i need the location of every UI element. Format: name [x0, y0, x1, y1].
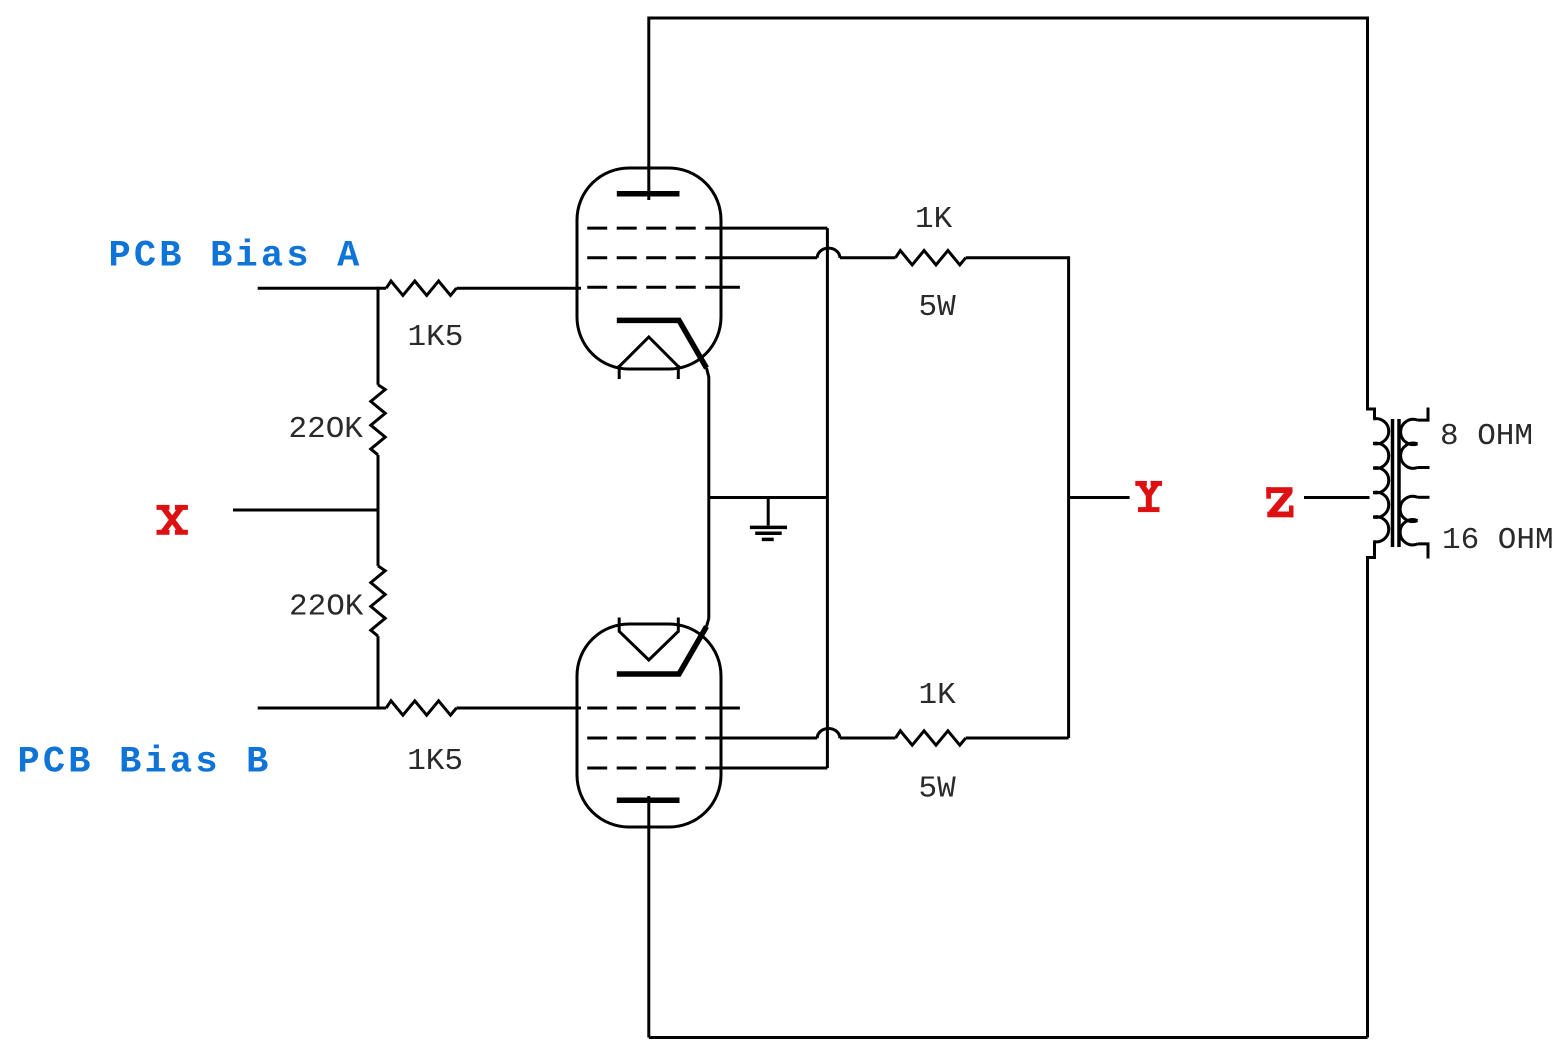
- wire Y tap: [1069, 496, 1130, 499]
- tube V2 plate: [617, 798, 680, 804]
- wire V1 g3 to suppressor rail: [712, 227, 827, 230]
- resistor R1 1K5 (top grid stopper): [386, 281, 456, 295]
- resistor R2 1K5 (bottom grid stopper): [386, 701, 456, 715]
- wire X input: [233, 509, 378, 512]
- wire bias A input: [258, 287, 387, 290]
- wire suppressor/cathode vertical rail: [826, 228, 829, 768]
- node Y label: [1135, 481, 1162, 512]
- tube V2 grid g1 (control) dashes: [587, 707, 712, 710]
- tube V1 grid g1 (control) dashes: [587, 286, 712, 289]
- wire V1 g2 (screen) to R5, hop over rail: [712, 256, 817, 259]
- svg-text:22OK: 22OK: [289, 412, 364, 447]
- wire R6 to Y node: [966, 737, 1069, 740]
- tube V2 envelope: [577, 624, 721, 827]
- wire hop to R5: [840, 256, 896, 259]
- svg-text:5W: 5W: [919, 290, 957, 325]
- svg-text:16 OHM: 16 OHM: [1442, 523, 1554, 558]
- svg-text:1K: 1K: [919, 678, 957, 713]
- wire bottom B+ rail: [649, 1036, 1368, 1039]
- tube V2 cathode: [617, 627, 707, 675]
- wire bias divider lower segment: [377, 636, 380, 709]
- wire top B+ rail: [649, 17, 1368, 20]
- svg-text:1K5: 1K5: [407, 744, 463, 779]
- tube V1 heater pin left: [618, 365, 621, 379]
- wire 8 ohm bottom terminal: [1418, 466, 1430, 469]
- tube V2 heater pin left: [618, 618, 621, 633]
- wire R2 to V2 control grid: [456, 707, 581, 710]
- wire V2 plate lead: [647, 796, 650, 1038]
- tube V1 grid g2 (screen) dashes: [587, 256, 712, 259]
- transformer T1 secondary winding 16 ohm: [1400, 496, 1417, 545]
- svg-text:22OK: 22OK: [289, 590, 364, 625]
- wire V2 g2 (screen) to R6, hop over rail: [712, 737, 817, 740]
- wire transformer primary top lead: [1368, 17, 1375, 420]
- tube V1 plate: [617, 191, 680, 197]
- wire transformer primary bottom lead: [1368, 542, 1375, 1038]
- transformer T1 primary winding: [1373, 419, 1389, 542]
- tube V2 heater: [619, 631, 678, 660]
- node X label: [157, 505, 188, 535]
- wire cathode join to ground: [709, 496, 828, 499]
- tube V1 heater: [619, 337, 678, 367]
- wire hop (bottom): [817, 728, 840, 738]
- wire 8 ohm top terminal: [1418, 408, 1429, 421]
- wire V1 cathode lead: [707, 368, 709, 619]
- wire R5 to Y node: [966, 256, 1069, 259]
- ground symbol: [750, 498, 787, 540]
- svg-text:PCB Bias A: PCB Bias A: [109, 236, 363, 278]
- wire 16 ohm top terminal: [1418, 496, 1430, 499]
- tube V2 grid g2 (screen) dashes: [587, 737, 712, 740]
- wire Y node vertical: [1067, 256, 1070, 738]
- tube V1 envelope: [577, 168, 721, 369]
- svg-text:8 OHM: 8 OHM: [1440, 419, 1533, 454]
- transformer T1 secondary winding 8 ohm: [1401, 419, 1418, 468]
- transformer T1 core: [1393, 419, 1400, 547]
- tube V2 grid g3 (suppressor) dashes: [587, 767, 712, 770]
- tube V1 cathode: [617, 320, 707, 368]
- wire hop (top): [817, 248, 840, 258]
- svg-text:PCB Bias B: PCB Bias B: [18, 741, 272, 783]
- wire bias divider middle segment: [377, 455, 380, 566]
- tube V2 heater pin right: [677, 618, 680, 633]
- wire V1 g1 stub right: [712, 286, 740, 289]
- wire V2 cathode lead: [707, 619, 709, 627]
- resistor R6 1K 5W (bottom): [896, 731, 966, 745]
- svg-text:5W: 5W: [919, 772, 957, 807]
- svg-text:1K5: 1K5: [408, 320, 464, 355]
- wire R1 to V1 control grid: [456, 287, 581, 290]
- tube V1 heater pin right: [677, 365, 680, 379]
- wire hop to R6: [840, 737, 896, 740]
- wire V2 g1 stub right: [712, 707, 740, 710]
- tube V1 grid g3 (suppressor) dashes: [587, 227, 712, 230]
- wire V2 g3 to suppressor rail: [712, 767, 827, 770]
- resistor R4 220K (lower): [371, 566, 385, 636]
- wire bias B input: [258, 707, 387, 710]
- wire V1 plate lead: [647, 17, 650, 201]
- node Z label: [1266, 487, 1293, 517]
- wire Z tap to primary center: [1304, 496, 1370, 499]
- svg-text:1K: 1K: [915, 202, 953, 237]
- wire bias divider upper segment: [377, 287, 380, 385]
- resistor R3 220K (upper): [371, 385, 385, 455]
- wire 16 ohm bottom terminal: [1418, 544, 1429, 559]
- resistor R5 1K 5W (top): [896, 251, 966, 265]
